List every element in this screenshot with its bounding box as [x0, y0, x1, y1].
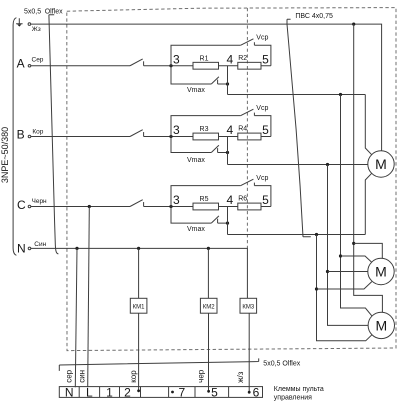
terminal circle B [28, 135, 31, 138]
svg-text:Vmax: Vmax [187, 157, 205, 164]
wire node 4 down to output (A) [227, 66, 229, 95]
svg-text:N: N [17, 242, 26, 256]
wire PE branch to M2 top [354, 243, 383, 258]
motor M3 [368, 312, 394, 338]
cable line 5x0,5 Olflex (bottom) [59, 358, 258, 371]
wire N to KM2 coil [207, 248, 209, 298]
terminal strip outline [59, 387, 262, 398]
junction Vmax-node4 (B) [226, 151, 229, 154]
wire KM2 to terminal 5 [208, 313, 210, 391]
resistor R4 [238, 133, 261, 140]
svg-text:4: 4 [226, 123, 233, 137]
junction PE to M2 [352, 242, 355, 245]
svg-text:чер: чер [197, 369, 206, 383]
svg-text:M: M [375, 156, 387, 172]
terminal circle PE [28, 23, 31, 26]
svg-text:3: 3 [173, 52, 180, 66]
terminal point 7 [171, 391, 174, 394]
junction C feeder branch [315, 233, 318, 236]
svg-text:2: 2 [124, 386, 131, 400]
contactor coil KM3 [240, 298, 257, 313]
switch SA3 fixed contact tick [143, 202, 145, 206]
wire output C to motor M1 bottom [228, 173, 372, 234]
terminal strip cell dividers [79, 387, 228, 398]
switch SA1 fixed contact tick [143, 61, 145, 65]
svg-text:5х0,5 Olflex: 5х0,5 Olflex [263, 360, 300, 367]
svg-text:5: 5 [262, 193, 269, 207]
cable line ПВС 4х0,75 (slanted, crossing motor feeders) [287, 24, 311, 237]
svg-text:5: 5 [262, 123, 269, 137]
svg-text:ж/з: ж/з [236, 371, 245, 383]
svg-text:R1: R1 [200, 55, 209, 62]
switch Vcp contact tick (A) [253, 42, 255, 45]
connector bracket 3NPE~50/380 [13, 18, 16, 256]
motor M2 [368, 258, 394, 284]
resistor R5 [193, 203, 219, 210]
svg-text:M: M [375, 264, 387, 280]
junction B feeder branch [326, 163, 329, 166]
switch Vcp blade (B) [241, 109, 254, 115]
svg-text:3NPE~50/380: 3NPE~50/380 [0, 127, 10, 183]
svg-text:R3: R3 [200, 126, 209, 133]
resistor R2 [238, 62, 261, 69]
wire PE branch to motors M2 M3 [354, 24, 383, 312]
terminal circle C [28, 205, 31, 208]
junction A feeder branch [339, 93, 342, 96]
svg-text:Vmax: Vmax [187, 226, 205, 233]
wire N to KM1 coil [138, 248, 140, 298]
svg-text:4: 4 [226, 52, 233, 66]
switch Vmax blade (C) [211, 216, 219, 223]
wire B branch to motors M2 M3 [328, 165, 369, 326]
wire phase B from terminal to switch [31, 136, 130, 138]
wire node 4 down to output (C) [227, 207, 229, 235]
terminal circle N [28, 247, 31, 250]
wire R1 to node 4 to R2 [219, 65, 238, 67]
switch SA1 blade (phase A) [130, 59, 143, 66]
svg-text:R4: R4 [238, 126, 247, 133]
wire B branch to M2 left [328, 271, 368, 273]
svg-text:L: L [86, 386, 93, 400]
wire R4 to node 5 corner (B) [261, 136, 271, 138]
svg-text:Черн: Черн [32, 198, 48, 205]
wire node 4 down to output (B) [227, 137, 229, 165]
terminal circle A [28, 64, 31, 67]
svg-text:1: 1 [106, 386, 113, 400]
switch Vcp contact tick (B) [253, 113, 255, 116]
svg-text:R2: R2 [238, 55, 247, 62]
wire C branch to motors M2 M3 [317, 235, 373, 341]
wire KM1 to terminal 2 [138, 313, 140, 390]
node 3 junction (B) [169, 135, 172, 138]
terminal point 5 [207, 390, 210, 393]
svg-text:Син: Син [34, 241, 46, 248]
svg-text:КМ2: КМ2 [203, 304, 215, 310]
svg-text:КМ1: КМ1 [133, 304, 145, 310]
junction L tap on phase C [88, 205, 91, 208]
wire phase C from terminal to switch [31, 206, 130, 208]
wire PE line to motor M1 top [31, 24, 382, 151]
wire N tap down to terminal N [75, 248, 77, 387]
switch Vmax blade (A) [211, 77, 219, 84]
resistor R1 [193, 62, 219, 69]
dashed mechanical link of Vcp switches [246, 8, 248, 248]
switch SA3 blade (phase C) [130, 200, 143, 207]
wire R5 to node 4 to R6 [219, 206, 238, 208]
svg-text:Vcp: Vcp [256, 175, 268, 182]
wire Vmax bypass loop (B) [171, 137, 228, 153]
resistor R3 [193, 133, 219, 140]
svg-text:5х0,5: 5х0,5 [24, 8, 41, 15]
svg-text:Сер: Сер [32, 56, 44, 63]
svg-text:Кор: Кор [32, 128, 43, 135]
svg-text:C: C [17, 198, 26, 212]
svg-text:Жз: Жз [32, 26, 41, 33]
switch Vcp blade (A) [241, 39, 254, 45]
svg-text:N: N [65, 386, 74, 400]
svg-text:кор: кор [129, 370, 138, 383]
svg-text:3: 3 [173, 193, 180, 207]
cable line Olflex (left, with end hooks) [49, 15, 59, 254]
svg-text:6: 6 [253, 386, 260, 400]
svg-text:Vmax: Vmax [187, 87, 205, 94]
svg-text:3: 3 [173, 123, 180, 137]
cable marker tick ПВС at x=287 [287, 19, 291, 24]
junction Vmax-node4 (A) [226, 82, 229, 85]
svg-text:сер: сер [64, 369, 73, 382]
wire Vmax bypass loop (C) [171, 207, 228, 224]
contactor coil KM1 [130, 298, 147, 313]
switch Vmax blade (B) [211, 145, 219, 152]
junction B to M2 [326, 270, 329, 273]
junction N tap to terminal N [75, 247, 78, 250]
motor M1 [368, 151, 394, 177]
wire phase A from terminal to switch [31, 65, 130, 67]
svg-text:B: B [17, 127, 25, 141]
wire A branch to motors M2 M3 [341, 95, 373, 317]
wire R6 to node 5 corner (C) [261, 206, 271, 208]
wire Vcp bypass loop (B) [171, 116, 271, 137]
svg-text:управления: управления [274, 395, 312, 402]
svg-text:A: A [17, 56, 25, 70]
wire Vmax bypass loop (A) [171, 66, 228, 84]
node 3 junction (A) [169, 64, 172, 67]
wire R2 to node 5 corner (A) [261, 65, 271, 67]
junction N to KM1 [137, 247, 140, 250]
wire A branch to M2 upper-left [341, 256, 372, 262]
dashed enclosure border of control unit [67, 8, 396, 351]
contactor coil KM2 [200, 298, 217, 313]
junction Vmax-node4 (C) [226, 222, 229, 225]
wire KM3 to terminal 6 [248, 313, 250, 392]
wire switch to node 3 (C) [144, 206, 193, 208]
svg-text:R5: R5 [200, 196, 209, 203]
terminal point 2 [137, 389, 140, 392]
wire output A to motor M1 upper-left [228, 95, 372, 155]
svg-text:Vcp: Vcp [256, 105, 268, 112]
wire C branch to M2 lower-left [317, 282, 372, 289]
svg-text:Клеммы пульта: Клеммы пульта [274, 386, 324, 393]
switch Vmax contact tick (B) [217, 148, 219, 152]
svg-text:M: M [375, 317, 387, 333]
switch Vmax contact tick (C) [217, 219, 219, 223]
switch Vcp contact tick (C) [253, 183, 255, 186]
wire switch to node 3 (A) [144, 65, 193, 67]
svg-text:4: 4 [226, 193, 233, 207]
switch Vcp blade (C) [241, 179, 254, 185]
wire Vcp bypass loop (A) [171, 45, 271, 66]
wire Vcp bypass loop (C) [171, 186, 271, 207]
svg-text:5: 5 [211, 386, 218, 400]
wire C tap down to terminal L [88, 207, 90, 388]
switch SA2 fixed contact tick [143, 132, 145, 136]
wire output B to motor M1 left [228, 164, 368, 166]
junction C to M2 [315, 287, 318, 290]
ground symbol PE [16, 18, 23, 24]
svg-text:Vcp: Vcp [256, 35, 268, 42]
svg-text:R6: R6 [238, 196, 247, 203]
node 3 junction (C) [169, 205, 172, 208]
svg-text:КМ3: КМ3 [242, 304, 254, 310]
switch Vmax contact tick (A) [217, 80, 219, 84]
wire R3 to node 4 to R4 [219, 136, 238, 138]
svg-text:5: 5 [262, 52, 269, 66]
junction N to KM2 [207, 247, 210, 250]
junction A to M2 [339, 254, 342, 257]
svg-text:ПВС 4х0,75: ПВС 4х0,75 [295, 13, 333, 20]
svg-text:7: 7 [178, 386, 185, 400]
junction PE branch [352, 23, 355, 26]
wire switch to node 3 (B) [144, 136, 193, 138]
terminal point 6 [248, 391, 251, 394]
wire neutral N line to KM3 [31, 248, 248, 298]
resistor R6 [238, 203, 261, 210]
svg-text:син: син [78, 370, 87, 383]
switch SA2 blade (phase B) [130, 130, 143, 137]
